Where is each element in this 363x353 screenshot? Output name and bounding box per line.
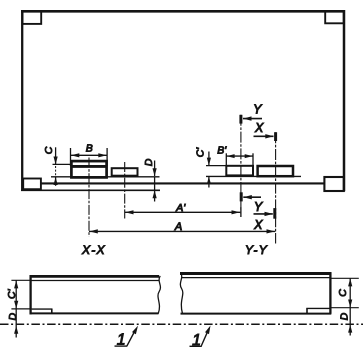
reference numeral 1 (right) leader [201,326,210,346]
section Y-Y right edge [329,272,331,314]
pad P4 [258,166,293,176]
panel outline left edge [21,10,23,191]
dimension B extension lines [71,148,108,166]
section X-X break edge [158,276,160,314]
panel outer bottom-left line [21,189,160,191]
section X-X left edge [29,275,31,314]
corner mark bottom-left [23,179,41,190]
svg-text:D: D [7,312,19,320]
section X-X layer line [32,280,159,282]
panel outline top edge [21,10,345,13]
section X-X extension line mid [11,308,31,310]
svg-text:Y: Y [253,103,263,117]
svg-text:X-X: X-X [81,243,106,257]
section X-X extension line top [11,279,29,281]
panel outline right edge [343,10,346,191]
section Y-Y layer line [181,277,331,279]
centerline pad P1 [88,158,90,237]
reference numeral 1 (left) leader [127,326,138,347]
dimension B' extension lines [226,153,253,167]
svg-text:C: C [337,289,349,297]
dimension B' [226,154,253,158]
dimension D (plan) [151,161,160,202]
section Y-Y break edge [180,273,182,314]
svg-text:A': A' [175,202,186,214]
section Y-Y bottom [181,313,332,315]
section X-X notch [32,309,53,313]
pad P2 [112,168,138,176]
dimension C (section Y-Y) [348,278,352,335]
svg-text:A: A [174,221,182,233]
pad P1 [71,161,106,177]
svg-text:X: X [253,218,263,232]
svg-text:D: D [339,312,351,320]
reference numeral 1 (left) [115,331,128,348]
svg-text:Y: Y [254,200,264,214]
svg-text:C': C' [6,288,18,299]
svg-text:Y-Y: Y-Y [245,243,268,257]
corner mark top-right [325,11,344,23]
svg-text:B': B' [217,145,227,157]
centerline pad P2 [124,162,126,219]
reference numeral 1 (right) [190,332,202,349]
corner mark top-left [23,11,42,24]
section marker X top [254,132,276,141]
section marker X bottom [254,208,275,219]
dimension C' (section X-X) [14,280,18,337]
svg-text:C': C' [194,147,206,158]
section line X [275,132,277,243]
dimension A' [125,210,241,214]
pad seat line right [206,175,301,177]
section X-X bar top [30,275,160,278]
dimension C' leader (plan) [206,152,226,188]
svg-text:C: C [43,146,55,154]
dimension C leader [53,147,72,186]
svg-text:B: B [86,143,93,155]
dimension A' extension tick [240,207,242,217]
pad P3 [226,166,253,176]
corner mark bottom-right [324,177,343,191]
section line Y [240,115,242,217]
dimension B [71,153,108,157]
section marker Y top [241,115,262,124]
section Y-Y bar top [180,272,331,275]
centerline of strip [0,323,363,325]
section X-X bottom [30,312,159,314]
section Y-Y notch [306,308,330,313]
pad seat line left [51,176,160,178]
section Y-Y extension line top [332,277,359,279]
dimension A [89,229,275,233]
section Y-Y extension line mid [332,307,359,309]
svg-text:X: X [254,121,264,135]
section marker Y bottom [241,192,261,201]
panel inner bottom line [41,182,325,184]
svg-text:D: D [143,158,155,166]
